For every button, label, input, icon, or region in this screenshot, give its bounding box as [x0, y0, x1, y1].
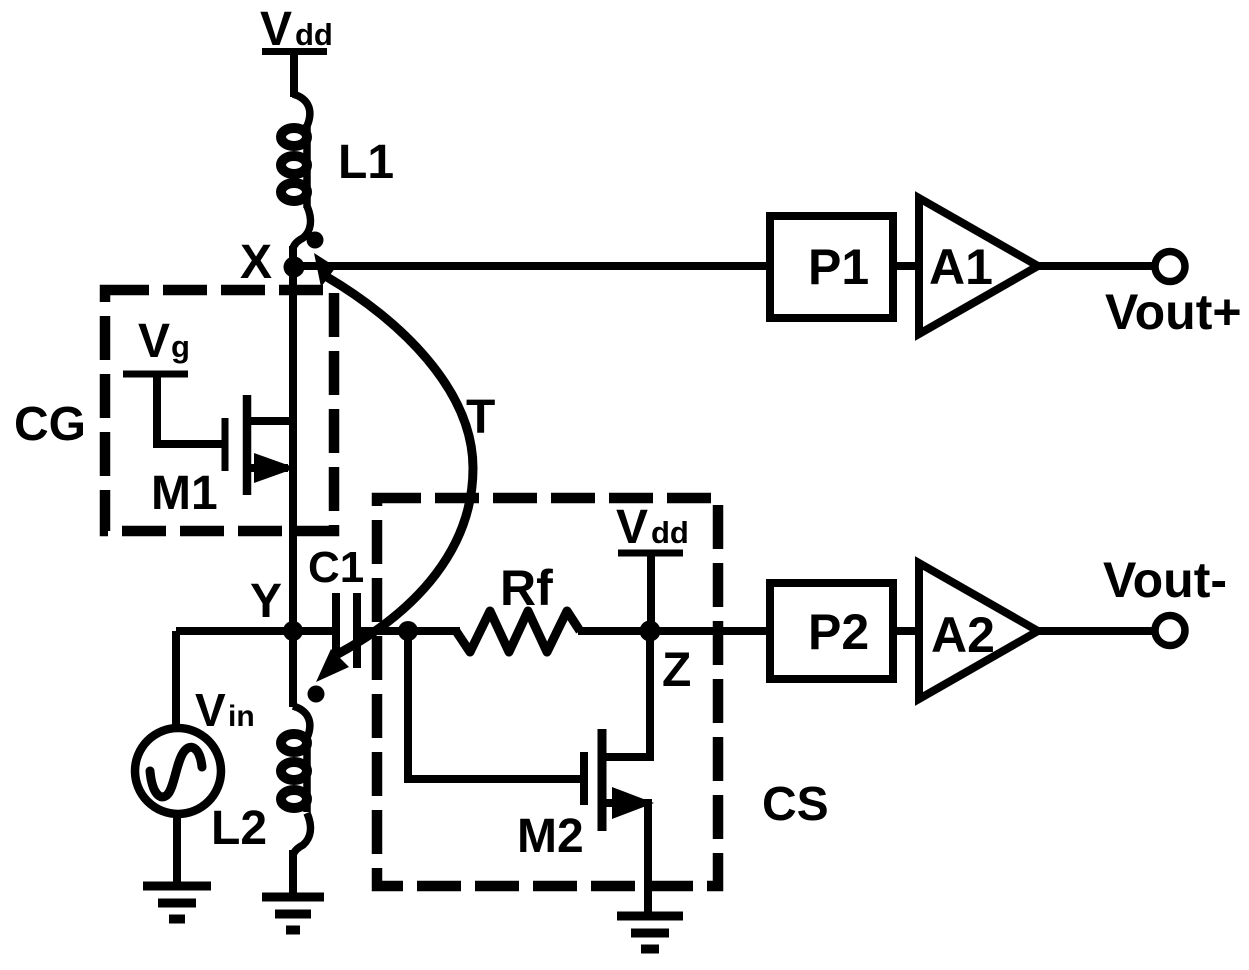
- svg-text:Z: Z: [662, 644, 691, 697]
- terminal Vout-: [1155, 616, 1185, 646]
- wire Vdd to Z: [647, 553, 655, 632]
- wire Z to M2 drain: [598, 631, 650, 757]
- svg-text:T: T: [466, 391, 495, 444]
- wire Y left: [176, 627, 334, 635]
- wire L2 to ground: [289, 850, 297, 899]
- polarity dot L1: [307, 232, 324, 249]
- svg-text:Vout+: Vout+: [1105, 284, 1242, 340]
- wire P1 to A1: [893, 262, 921, 270]
- terminal Vout+: [1155, 252, 1185, 282]
- svg-text:CS: CS: [762, 778, 829, 831]
- block P1: [770, 216, 893, 318]
- svg-text:Vout-: Vout-: [1103, 552, 1227, 608]
- svg-text:P1: P1: [808, 239, 869, 295]
- wire Vdd to L1: [290, 51, 298, 97]
- svg-text:in: in: [228, 700, 255, 733]
- inductor L1: [281, 94, 310, 248]
- svg-text:P2: P2: [808, 604, 869, 660]
- wire M2 source to ground: [644, 799, 652, 918]
- power Vg: [123, 315, 190, 374]
- wire feedback to M2 gate: [408, 631, 580, 779]
- amplifier A1: [919, 198, 1038, 334]
- amplifier A2: [919, 563, 1038, 699]
- node Z: [640, 621, 661, 642]
- ground (Vin): [143, 886, 211, 919]
- power Vdd (top): [260, 3, 333, 56]
- wire C1 to Rf: [359, 627, 460, 635]
- ground (L2): [262, 897, 324, 930]
- label Vin: [195, 684, 255, 736]
- wire X to P1: [294, 262, 768, 270]
- svg-text:dd: dd: [651, 515, 689, 550]
- svg-text:C1: C1: [308, 543, 364, 592]
- resistor Rf: [456, 611, 580, 652]
- svg-text:X: X: [240, 236, 272, 289]
- ground (M2): [617, 916, 683, 949]
- power Vdd (CS): [616, 501, 689, 554]
- svg-text:M1: M1: [151, 467, 218, 520]
- node X: [284, 257, 305, 278]
- svg-text:L2: L2: [211, 802, 267, 855]
- svg-text:g: g: [171, 329, 190, 364]
- svg-text:V: V: [195, 684, 226, 736]
- svg-text:V: V: [616, 501, 648, 554]
- transistor M1: [225, 395, 297, 495]
- svg-text:L1: L1: [338, 136, 394, 189]
- svg-text:A1: A1: [929, 239, 993, 295]
- wire A2 to Vout-: [1038, 627, 1154, 635]
- svg-text:dd: dd: [295, 17, 333, 52]
- wire Vg to gate: [157, 374, 223, 444]
- wire A1 to Vout+: [1038, 262, 1154, 270]
- wire Y to Vin: [172, 631, 180, 729]
- svg-text:Rf: Rf: [500, 560, 553, 616]
- svg-text:CG: CG: [14, 398, 86, 451]
- capacitor C1: [336, 593, 357, 668]
- polarity dot L2: [308, 686, 325, 703]
- wire P2 to A2: [893, 627, 921, 635]
- transistor M2: [584, 729, 654, 831]
- dashed box CS: [377, 498, 718, 886]
- svg-text:M2: M2: [517, 810, 584, 863]
- block P2: [770, 583, 893, 679]
- wire main vertical X to Y: [289, 246, 297, 707]
- wire Vin to ground: [173, 813, 181, 888]
- coupling arrow T: [314, 253, 473, 682]
- node Y: [283, 621, 303, 641]
- node junction C1/Rf/gate: [398, 621, 418, 641]
- svg-text:Y: Y: [250, 575, 282, 628]
- dashed box CG: [105, 290, 334, 531]
- inductor L2: [281, 706, 310, 855]
- source Vin: [135, 728, 221, 814]
- wire Rf to Z to P2: [578, 627, 768, 635]
- svg-text:A2: A2: [931, 607, 995, 663]
- svg-text:V: V: [138, 315, 170, 368]
